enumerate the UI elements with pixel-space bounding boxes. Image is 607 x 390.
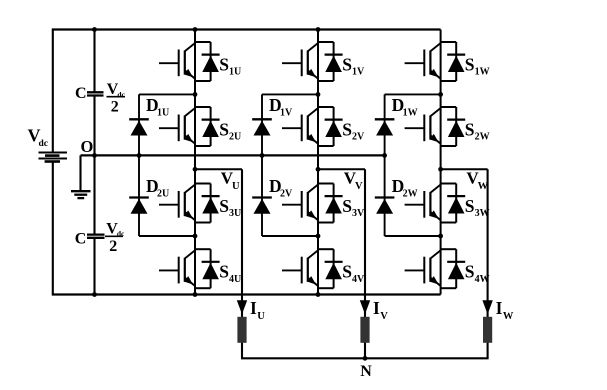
svg-text:2W: 2W [403, 189, 418, 200]
svg-text:4U: 4U [229, 274, 241, 285]
diode antiparallel of S4V [318, 249, 343, 288]
junction: O bus / clamp rail W [382, 153, 387, 158]
junction: bottom bus / capacitor rail [92, 292, 97, 297]
svg-text:V: V [380, 311, 388, 322]
svg-text:U: U [232, 181, 240, 192]
junction: midpoint S3W/S4W on spine [438, 234, 443, 239]
wire S3W/S4W midpoint to clamp rail [385, 235, 441, 237]
transistor S2W (IGBT) [405, 108, 441, 144]
svg-text:2: 2 [109, 238, 117, 255]
svg-text:1W: 1W [475, 67, 490, 78]
svg-text:1V: 1V [280, 108, 293, 119]
wire S3V/S4V midpoint to clamp rail [262, 235, 318, 237]
wire bottom DC bus (-) [52, 293, 441, 295]
wire phase W spine [440, 30, 442, 295]
junction: top bus / phase U spine [193, 27, 198, 32]
junction: midpoint S1W/S2W on spine [438, 92, 443, 97]
wire left rail lower (Vdc - to bottom bus) [52, 162, 54, 294]
svg-text:4V: 4V [352, 274, 365, 285]
svg-text:2V: 2V [280, 189, 293, 200]
diode D2V (clamp) [252, 198, 272, 214]
wire phase U spine [194, 30, 196, 295]
diode antiparallel of S3V [318, 184, 343, 223]
diode antiparallel of S2U [195, 107, 220, 146]
capacitor C lower [87, 235, 105, 238]
svg-text:I: I [250, 298, 257, 318]
svg-text:1V: 1V [352, 67, 365, 78]
diode antiparallel of S1V [318, 42, 343, 81]
wire clamp diode rail phase V [261, 94, 263, 236]
diode antiparallel of S2V [318, 107, 343, 146]
svg-text:U: U [257, 311, 265, 322]
load impedance phase V [360, 317, 369, 343]
svg-text:S: S [342, 262, 352, 282]
diode D1U (clamp) [129, 119, 149, 135]
load impedance phase W [483, 317, 492, 343]
wire N bus [241, 357, 489, 359]
junction: takeoff on phase U spine [193, 167, 198, 172]
svg-text:S: S [465, 54, 475, 74]
svg-text:C: C [75, 231, 87, 248]
diode antiparallel of S4W [441, 249, 466, 288]
svg-text:C: C [75, 85, 87, 102]
svg-text:dc: dc [39, 139, 49, 149]
junction: bottom bus / phase U spine [193, 292, 198, 297]
junction: O bus / clamp rail V [260, 153, 265, 158]
diode antiparallel of S3U [195, 184, 220, 223]
capacitor C upper [87, 92, 104, 95]
wire capacitor rail segment (top bus to upper C) [93, 30, 95, 92]
svg-text:S: S [342, 119, 352, 139]
wire phase U output down-lead [241, 169, 243, 358]
svg-text:S: S [465, 262, 475, 282]
svg-text:W: W [503, 311, 514, 322]
diode antiparallel of S1W [441, 42, 466, 81]
transistor S1V (IGBT) [282, 43, 318, 79]
wire capacitor rail segment (lower C to bottom bus) [93, 239, 95, 295]
svg-text:2U: 2U [157, 189, 169, 200]
transistor S1U (IGBT) [159, 43, 195, 79]
junction: midpoint S1V/S2V on spine [316, 92, 321, 97]
transistor S3U (IGBT) [159, 184, 195, 220]
svg-text:S: S [219, 119, 229, 139]
svg-text:S: S [465, 119, 475, 139]
wire phase U output takeoff [195, 168, 242, 170]
junction: midpoint S1U/S2U on spine [193, 92, 198, 97]
junction: takeoff on phase V spine [316, 167, 321, 172]
svg-text:2U: 2U [229, 132, 241, 143]
transistor S2U (IGBT) [159, 108, 195, 144]
transistor S2V (IGBT) [282, 108, 318, 144]
junction: N bus / phase V down-lead [363, 356, 368, 361]
wire S1V/S2V midpoint to clamp rail [262, 93, 318, 95]
svg-text:1W: 1W [403, 108, 418, 119]
ground [71, 155, 91, 198]
svg-text:2W: 2W [475, 132, 490, 143]
wire left rail upper (Vdc + to top bus) [52, 30, 54, 152]
diode antiparallel of S1U [195, 42, 220, 81]
svg-text:1U: 1U [229, 67, 241, 78]
diode antiparallel of S2W [441, 107, 466, 146]
svg-text:S: S [219, 196, 229, 216]
current arrow IU [237, 300, 247, 314]
svg-text:V: V [355, 181, 363, 192]
wire phase W output takeoff [441, 168, 488, 170]
junction: top bus / capacitor rail [92, 27, 97, 32]
current arrow IV [360, 300, 370, 314]
svg-text:S: S [465, 196, 475, 216]
diode D2W (clamp) [375, 198, 395, 214]
svg-text:2V: 2V [352, 132, 365, 143]
junction: top bus / phase V spine [316, 27, 321, 32]
junction: bottom bus / phase V spine [316, 292, 321, 297]
current arrow IW [482, 300, 492, 314]
junction: midpoint S3U/S4U on spine [193, 234, 198, 239]
diode D1V (clamp) [252, 119, 272, 135]
wire capacitor rail segment (upper C to lower C) [93, 96, 95, 233]
transistor S3W (IGBT) [405, 184, 441, 220]
svg-text:S: S [219, 262, 229, 282]
svg-text:S: S [342, 196, 352, 216]
diode D2U (clamp) [129, 198, 149, 214]
svg-text:S: S [342, 54, 352, 74]
value Vdc/2 (upper capacitor) [107, 81, 126, 115]
wire phase V spine [317, 30, 319, 295]
diode antiparallel of S4U [195, 249, 220, 288]
transistor S4U (IGBT) [159, 250, 195, 286]
wire phase V output down-lead [364, 169, 366, 358]
svg-text:2: 2 [111, 99, 119, 116]
wire S3U/S4U midpoint to clamp rail [139, 235, 195, 237]
load impedance phase U [237, 317, 246, 343]
wire clamp diode rail phase U [138, 94, 140, 236]
transistor S4W (IGBT) [405, 250, 441, 286]
transistor S1W (IGBT) [405, 43, 441, 79]
wire S1W/S2W midpoint to clamp rail [385, 93, 441, 95]
wire phase V output takeoff [318, 168, 365, 170]
wire phase W output down-lead [487, 169, 489, 358]
svg-text:I: I [373, 298, 380, 318]
svg-text:W: W [478, 181, 489, 192]
svg-text:3U: 3U [229, 208, 241, 219]
junction: O bus / capacitor rail [92, 153, 97, 158]
svg-text:I: I [496, 298, 503, 318]
wire clamp diode rail phase W [384, 94, 386, 236]
wire top DC bus (+) [52, 28, 441, 30]
battery Vdc [39, 153, 68, 162]
svg-text:S: S [219, 54, 229, 74]
value Vdc/2 (lower capacitor) [105, 221, 125, 255]
junction: O bus / clamp rail U [137, 153, 142, 158]
wire S1U/S2U midpoint to clamp rail [139, 93, 195, 95]
svg-text:O: O [81, 137, 94, 156]
diode D1W (clamp) [375, 119, 395, 135]
svg-text:3V: 3V [352, 208, 365, 219]
wire neutral bus from node O [81, 154, 385, 156]
svg-text:N: N [360, 363, 372, 380]
junction: midpoint S3V/S4V on spine [316, 234, 321, 239]
diode antiparallel of S3W [441, 184, 466, 223]
junction: takeoff on phase W spine [438, 167, 443, 172]
transistor S4V (IGBT) [282, 250, 318, 286]
transistor S3V (IGBT) [282, 184, 318, 220]
svg-text:1U: 1U [157, 108, 169, 119]
